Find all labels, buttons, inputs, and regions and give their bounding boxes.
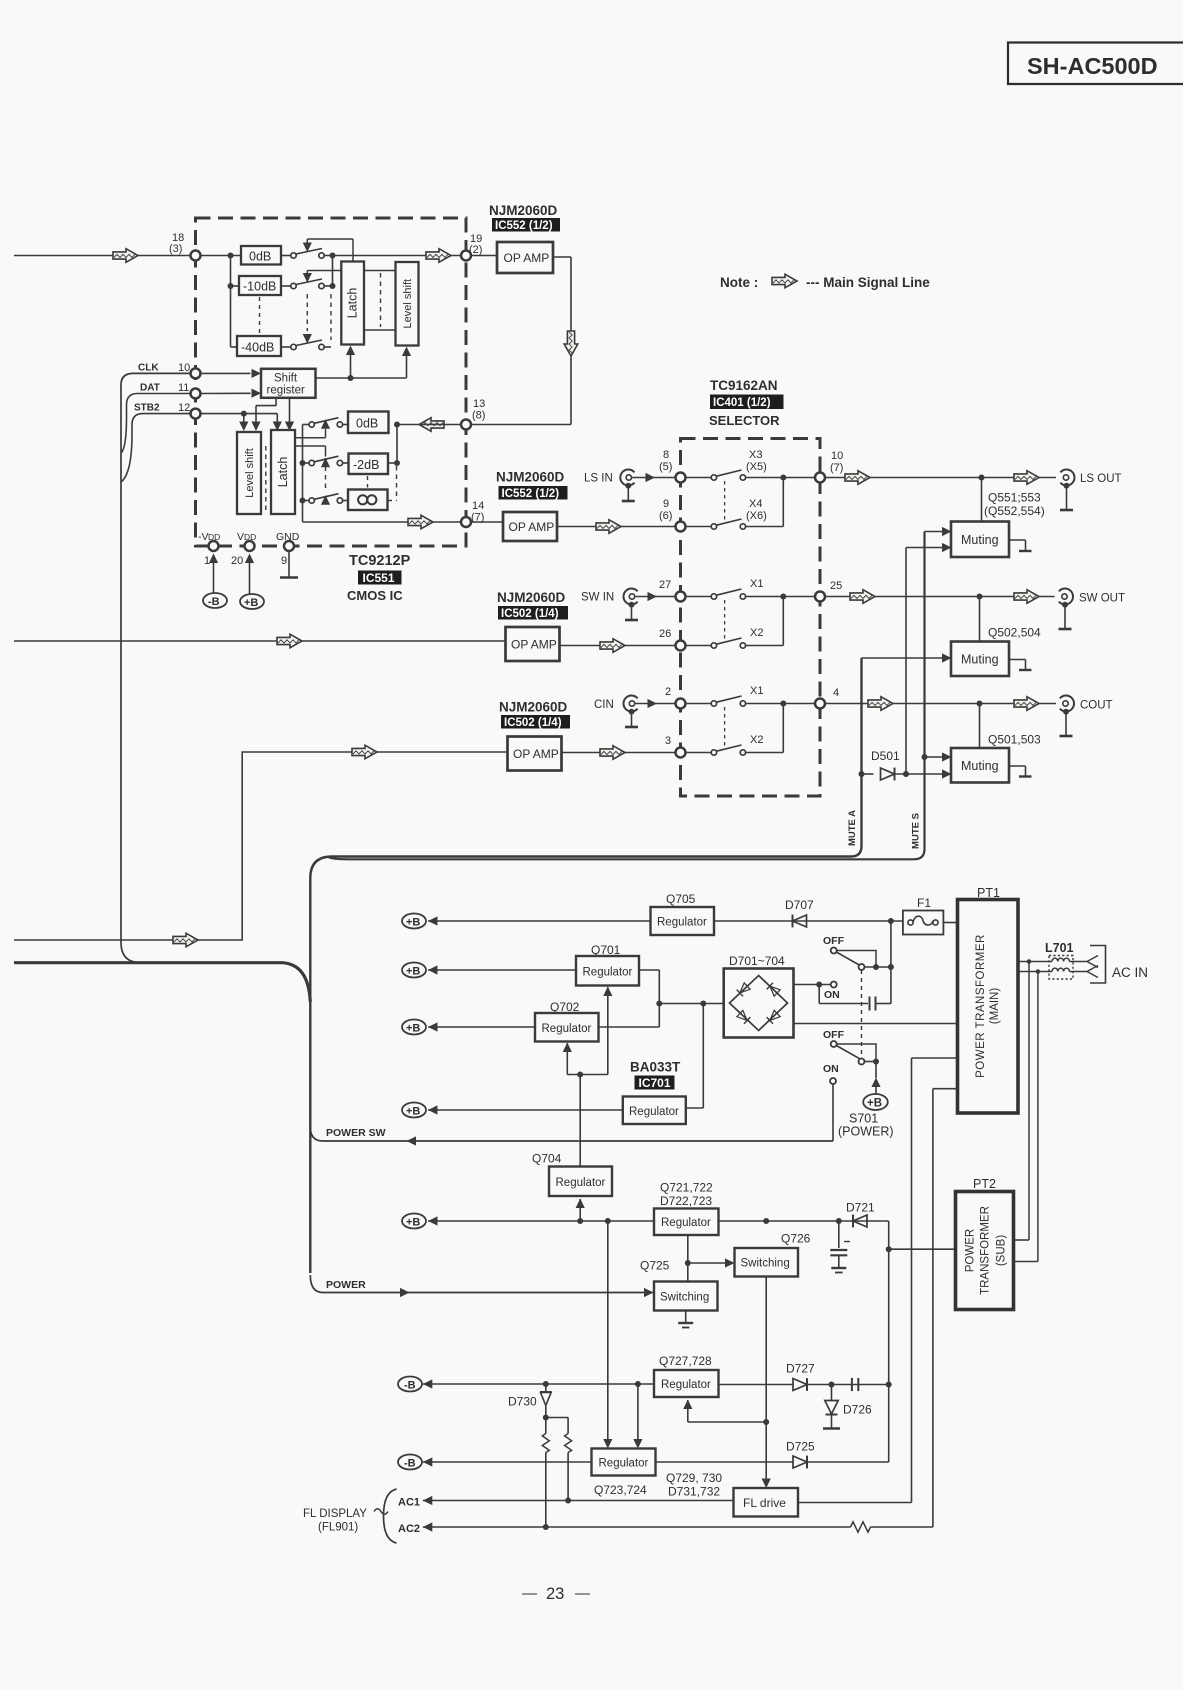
wire X4 up to X3 output	[746, 478, 784, 527]
svg-text:8: 8	[663, 449, 669, 461]
svg-text:NJM2060D: NJM2060D	[496, 470, 565, 485]
svg-text:Switching: Switching	[741, 1258, 790, 1270]
wire LS IN to pin 8	[632, 473, 676, 482]
muting LS inputs	[906, 527, 952, 552]
svg-text:Regulator: Regulator	[657, 917, 707, 929]
svg-text:D701~704: D701~704	[729, 954, 785, 968]
FL DISPLAY label and brace	[303, 1489, 397, 1543]
node pin 27	[659, 579, 686, 602]
svg-text:-40dB: -40dB	[241, 341, 274, 355]
label TC9162AN IC401 (1/2) SELECTOR	[709, 378, 784, 428]
muting block SW	[951, 597, 1032, 677]
svg-text:Regulator: Regulator	[661, 1379, 711, 1391]
svg-text:COUT: COUT	[1080, 700, 1113, 712]
latch block2	[271, 430, 295, 514]
svg-text:(2): (2)	[469, 244, 482, 256]
switch S701 pole b ON contact	[823, 1063, 839, 1141]
svg-text:FL drive: FL drive	[743, 1496, 786, 1510]
attenuator 0dB block2	[348, 412, 389, 434]
wire -B1 to Q723	[633, 1384, 642, 1449]
svg-text:4: 4	[833, 687, 839, 699]
wire Q723 output diode D725	[656, 1440, 889, 1469]
svg-text:Switching: Switching	[660, 1292, 709, 1304]
svg-text:Q502,504: Q502,504	[988, 626, 1041, 640]
svg-text:F1: F1	[917, 896, 931, 910]
switch row -10dB	[281, 271, 341, 289]
svg-text:OP AMP: OP AMP	[509, 520, 555, 534]
wire pin4 to COUT	[825, 697, 1056, 711]
svg-text:STB2: STB2	[134, 403, 160, 414]
switch X4 (X6)	[686, 481, 767, 529]
svg-text:DD: DD	[244, 532, 256, 542]
svg-text:(3): (3)	[169, 243, 182, 255]
svg-text:OP AMP: OP AMP	[504, 251, 550, 265]
latch U1a	[341, 262, 364, 345]
ground pin 9	[280, 552, 298, 578]
wire 13 to 0dB attenuator	[388, 422, 462, 501]
wire main input to pin 18	[14, 249, 191, 263]
connector SW IN	[581, 589, 638, 621]
connector LS OUT	[1060, 470, 1122, 511]
wire X2 up to X1 output	[746, 597, 784, 646]
S701 mechanical gang link	[861, 970, 863, 1058]
op-amp IC552b	[503, 512, 557, 541]
wire bridge output to PT1	[794, 1023, 958, 1025]
svg-text:OFF: OFF	[823, 935, 845, 947]
svg-text:-2dB: -2dB	[353, 458, 379, 472]
node pin 18 (3)	[169, 232, 201, 261]
regulator Q702	[535, 1000, 659, 1042]
wire Q721 bottom to switchers	[685, 1235, 735, 1282]
node pin 11 DAT	[140, 382, 201, 399]
svg-text:-B: -B	[404, 1458, 416, 1470]
svg-text:23: 23	[546, 1585, 564, 1603]
label NJM2060D IC502 (1/4) sw	[497, 590, 568, 620]
+B output 5	[402, 1214, 654, 1229]
svg-text:V: V	[237, 531, 244, 543]
svg-text:IC502 (1/4): IC502 (1/4)	[501, 608, 559, 620]
wire 18 to attenuators	[201, 253, 242, 348]
svg-text:D731,732: D731,732	[668, 1485, 720, 1499]
node pin 4	[815, 687, 839, 709]
svg-text:X2: X2	[750, 627, 763, 639]
svg-text:AC2: AC2	[398, 1523, 420, 1535]
svg-text:AC IN: AC IN	[1112, 965, 1148, 980]
wire op-amp4 output to pin 3	[562, 746, 676, 760]
wire +B5 to Q723	[603, 1221, 612, 1449]
node pin 14 (7)	[461, 500, 484, 527]
svg-text:L701: L701	[1045, 941, 1074, 955]
+B output 2	[402, 963, 576, 978]
note legend: main signal line	[720, 274, 930, 290]
node pin 10 (7)	[815, 450, 843, 483]
wire Q704 bottom to +B5 row	[576, 1199, 585, 1222]
svg-text:Latch: Latch	[276, 457, 290, 488]
wire X1 to pin 25	[746, 594, 815, 600]
svg-text:Muting: Muting	[961, 653, 999, 667]
+B output 4	[402, 1103, 623, 1118]
wire CLK routed to left bus	[121, 373, 191, 962]
svg-text:PT2: PT2	[973, 1177, 996, 1191]
label BA033T IC701	[630, 1060, 681, 1091]
svg-text:9: 9	[663, 498, 669, 510]
wire Q727 output diode D727 and cap	[719, 1362, 892, 1392]
svg-text:IC552 (1/2): IC552 (1/2)	[502, 488, 560, 500]
bridge rectifier D701~704	[724, 954, 794, 1038]
node pin 26	[659, 628, 686, 651]
svg-text:Q729, 730: Q729, 730	[666, 1471, 722, 1485]
svg-text:Regulator: Regulator	[556, 1177, 606, 1189]
svg-text:IC551: IC551	[363, 571, 395, 585]
svg-text:IC552 (1/2): IC552 (1/2)	[495, 220, 553, 232]
svg-text:SELECTOR: SELECTOR	[709, 413, 780, 428]
svg-text:ON: ON	[824, 989, 840, 1001]
svg-text:+B: +B	[244, 597, 258, 609]
control bus from left edge	[14, 963, 310, 1002]
PT2 right wires to AC taps	[1014, 1240, 1038, 1262]
svg-text:POWER TRANSFORMER: POWER TRANSFORMER	[975, 934, 987, 1078]
svg-text:X1: X1	[750, 578, 763, 590]
svg-text:26: 26	[659, 628, 671, 640]
svg-text:Q726: Q726	[781, 1232, 811, 1246]
attenuator infinity block2	[348, 476, 388, 510]
shift register output to latch1 / level shift1	[316, 346, 412, 382]
wire X2c up to X1c output	[746, 704, 784, 753]
shift register bottom outputs	[251, 398, 294, 431]
-B output 2	[398, 1455, 592, 1470]
svg-text:9: 9	[281, 555, 287, 567]
svg-text:D722,723: D722,723	[660, 1194, 712, 1208]
svg-text:AC1: AC1	[398, 1497, 420, 1509]
muting block LS	[951, 478, 1032, 558]
svg-text:IC401 (1/2): IC401 (1/2)	[713, 397, 771, 409]
node pin 9 (6)	[659, 498, 686, 532]
svg-text:10: 10	[178, 362, 190, 374]
svg-text:3: 3	[665, 735, 671, 747]
svg-text:-B: -B	[208, 596, 220, 608]
output bus of attenuator switches	[324, 249, 461, 347]
svg-text:11: 11	[178, 382, 189, 394]
+B output 1	[402, 914, 651, 929]
FL drive block	[734, 1488, 799, 1517]
svg-text:(X6): (X6)	[746, 510, 767, 522]
shift register	[261, 369, 316, 398]
wire Q705 to fuse with diode D707	[714, 898, 903, 927]
node pin 25	[815, 580, 842, 602]
wire pin10 to LS OUT	[825, 471, 1056, 485]
svg-text:+B: +B	[406, 1023, 420, 1035]
POWER SW line	[310, 1127, 833, 1146]
svg-text:SH-AC500D: SH-AC500D	[1027, 53, 1158, 79]
power transformer PT1	[958, 886, 1019, 1113]
svg-text:Q725: Q725	[640, 1259, 670, 1273]
label NJM2060D IC552 (1/2)	[489, 203, 560, 232]
svg-text:LS OUT: LS OUT	[1080, 473, 1122, 485]
switch X3 (X5)	[686, 449, 767, 480]
regulator Q723,724	[592, 1449, 656, 1498]
switch S701 pole a ON contact	[794, 982, 891, 1011]
IC551 dashed outline box	[196, 218, 467, 546]
svg-text:2: 2	[665, 686, 671, 698]
+B supply arrow	[240, 554, 264, 610]
svg-text:POWER SW: POWER SW	[326, 1127, 386, 1139]
svg-text:(5): (5)	[659, 461, 672, 473]
switch row block2 0dB	[296, 418, 348, 438]
attenuator -10dB	[239, 276, 281, 295]
svg-text:27: 27	[659, 579, 671, 591]
svg-text:Q705: Q705	[666, 892, 696, 906]
svg-text:CLK: CLK	[138, 363, 159, 374]
wire F1 node down to switch S701a	[888, 921, 894, 1004]
switching Q726	[735, 1232, 811, 1277]
svg-text:NJM2060D: NJM2060D	[489, 203, 558, 218]
svg-text:NJM2060D: NJM2060D	[497, 590, 566, 605]
node pin 2	[665, 686, 686, 709]
regulator Q721,722 D722,723	[654, 1181, 719, 1236]
attenuator -40dB	[237, 336, 281, 356]
op-amp IC502a	[506, 627, 560, 661]
svg-text:IC502 (1/4): IC502 (1/4)	[504, 717, 562, 729]
svg-text:(POWER): (POWER)	[838, 1125, 894, 1139]
switch X2 c	[686, 707, 764, 755]
muting C input from mute S	[922, 752, 952, 761]
svg-text:OP AMP: OP AMP	[513, 747, 559, 761]
connector COUT	[1060, 696, 1113, 737]
AC2 line with resistor	[398, 1522, 933, 1535]
svg-text:POWER: POWER	[965, 1229, 977, 1272]
svg-text:Regulator: Regulator	[661, 1217, 711, 1229]
svg-text:SW OUT: SW OUT	[1079, 593, 1125, 605]
AC1 line	[398, 1496, 734, 1509]
wire Q726 bottom to FL drive	[762, 1277, 771, 1489]
wire D721 node to PT2	[886, 1246, 956, 1252]
svg-text:TRANSFORMER: TRANSFORMER	[980, 1206, 992, 1295]
svg-text:Regulator: Regulator	[599, 1458, 649, 1470]
svg-text:OP AMP: OP AMP	[511, 638, 557, 652]
svg-text:(7): (7)	[830, 462, 843, 474]
label Q502,504	[988, 626, 1041, 640]
svg-text:(Q552,554): (Q552,554)	[984, 504, 1045, 518]
svg-text:X4: X4	[749, 498, 762, 510]
op-amp IC552a	[497, 242, 553, 273]
svg-text:X1: X1	[750, 685, 763, 697]
switch row 0dB	[281, 239, 353, 262]
svg-text:SW IN: SW IN	[581, 592, 614, 604]
regulator IC701	[623, 1004, 704, 1125]
wire left input loop to op-amp4	[14, 745, 508, 947]
node pin 20 VDD	[231, 531, 256, 567]
svg-text:14: 14	[472, 500, 484, 512]
diode D730	[508, 1384, 552, 1434]
wire pin25 to SW OUT	[825, 590, 1055, 604]
svg-text:25: 25	[830, 580, 842, 592]
labels Q729,730 D731,732	[666, 1471, 722, 1499]
svg-text:OFF: OFF	[823, 1029, 845, 1041]
svg-text:S701: S701	[849, 1112, 878, 1126]
label TC9212P IC551 CMOS IC	[347, 553, 411, 603]
+B output 3	[402, 1020, 535, 1035]
svg-text:TC9212P: TC9212P	[349, 553, 411, 569]
wire STB2 into block2 latches	[201, 411, 282, 431]
svg-text:D501: D501	[871, 749, 900, 763]
-B supply arrow	[203, 554, 227, 609]
node pin 3	[665, 735, 686, 758]
node pin 19 (2)	[461, 233, 482, 261]
svg-text:-10dB: -10dB	[243, 280, 276, 294]
svg-text:Latch: Latch	[346, 288, 360, 319]
mute line to muting LS lower input	[905, 548, 907, 775]
level shift block2	[237, 432, 261, 514]
connector AC IN	[1087, 946, 1148, 984]
wire op-amp2 output to selector pin 9	[557, 520, 675, 534]
wire SW IN to pin 27	[635, 592, 676, 601]
svg-text:FL DISPLAY: FL DISPLAY	[303, 1508, 367, 1520]
svg-text:Q721,722: Q721,722	[660, 1181, 713, 1195]
diode D501 and mute C lower input	[859, 749, 952, 780]
gang dashed link between arms	[306, 294, 308, 331]
wire Q721 output with diode D721	[719, 1201, 889, 1463]
svg-text:Muting: Muting	[961, 533, 999, 547]
svg-text:+B: +B	[406, 1106, 420, 1118]
mute A line	[310, 658, 861, 1273]
muting SW input from mute A	[862, 653, 952, 662]
switch S701 pole b OFF	[823, 1029, 879, 1065]
fuse F1	[903, 896, 958, 935]
svg-text:Q727,728: Q727,728	[659, 1354, 712, 1368]
wire left input to op-amp3	[14, 634, 506, 648]
svg-text:POWER: POWER	[326, 1279, 366, 1291]
regulator Q701	[576, 943, 639, 986]
svg-text:(8): (8)	[472, 410, 485, 422]
page number 23	[522, 1585, 590, 1603]
op-amp IC502b	[508, 737, 562, 771]
dashed link between level shift2 and latch2	[265, 446, 267, 510]
muting block C	[951, 704, 1032, 783]
svg-text:13: 13	[473, 398, 485, 410]
wire op-amp1 output loop to pin 13	[419, 257, 578, 431]
wire DAT to shift register	[201, 389, 262, 398]
svg-text:-V: -V	[198, 531, 209, 543]
svg-text:+B: +B	[406, 1217, 420, 1229]
latch to level shift links	[364, 271, 396, 331]
svg-text:(FL901): (FL901)	[318, 1522, 358, 1534]
svg-text:(SUB): (SUB)	[996, 1235, 1008, 1266]
svg-text:LS IN: LS IN	[584, 473, 613, 485]
svg-text:Q551;553: Q551;553	[988, 491, 1041, 505]
svg-text:0dB: 0dB	[249, 250, 271, 264]
wire DAT routed to left bus	[121, 394, 190, 454]
capacitor at Q721 output	[830, 1221, 850, 1273]
svg-text:-B: -B	[404, 1380, 416, 1392]
diode D726 to ground	[823, 1385, 872, 1429]
wire PT1 to FL drive column	[912, 1058, 958, 1503]
svg-text:10: 10	[831, 450, 843, 462]
svg-text:MUTE S: MUTE S	[911, 813, 922, 849]
svg-text:Level shift: Level shift	[244, 448, 256, 498]
resistor pair to FL lines	[542, 1418, 571, 1531]
switch row block2 infinity	[309, 458, 348, 505]
wire Q727 bottom feed	[683, 1400, 766, 1423]
svg-text:+B: +B	[867, 1098, 882, 1110]
connector LS IN	[584, 470, 635, 502]
mute S to muting C junction	[924, 532, 926, 758]
dashed continuation between -10dB and -40dB	[259, 297, 261, 334]
svg-text:20: 20	[231, 555, 243, 567]
node pin 13 (8)	[461, 398, 485, 430]
label Q551,553 (Q552,554)	[984, 491, 1045, 519]
attenuator 0dB	[241, 246, 281, 265]
wire STB2 routed to left bus	[121, 414, 190, 482]
regulator Q705	[651, 892, 715, 935]
wire CLK to shift register	[201, 369, 262, 378]
connector CIN	[594, 696, 638, 728]
node pin 8 (5)	[659, 449, 686, 483]
wire node19 to op-amp	[471, 255, 497, 257]
svg-text:BA033T: BA033T	[630, 1060, 681, 1075]
level shift U1b	[396, 262, 419, 346]
model name box SH-AC500D	[1008, 43, 1183, 85]
svg-text:Note :: Note :	[720, 275, 758, 290]
svg-text:X2: X2	[750, 734, 763, 746]
node pin 1 -VDD	[198, 531, 220, 567]
label NJM2060D IC502 (1/4) c	[499, 700, 570, 730]
svg-text:+B: +B	[406, 917, 420, 929]
svg-text:X3: X3	[749, 449, 762, 461]
regulator Q704	[532, 1152, 612, 1197]
node pin 12 STB2	[134, 402, 201, 419]
svg-text:D707: D707	[785, 898, 814, 912]
wire X3 to pin 10	[746, 475, 815, 481]
node pin 9 GND	[276, 531, 300, 567]
svg-text:CIN: CIN	[594, 699, 614, 711]
svg-text:DAT: DAT	[140, 383, 160, 394]
ground Q725	[678, 1311, 693, 1328]
wire CIN to pin 2	[635, 699, 676, 708]
svg-text:DD: DD	[208, 532, 220, 542]
svg-text:D721: D721	[846, 1201, 875, 1215]
svg-text:0dB: 0dB	[356, 417, 378, 431]
wire Q701 output to bridge node	[639, 970, 724, 1027]
svg-text:—: —	[575, 1585, 590, 1602]
regulator feed chain Q701 Q702 from Q704	[563, 987, 613, 1167]
wires AC to PT2 taps	[1027, 959, 1041, 1261]
switch X2 sw	[686, 600, 764, 648]
svg-text:NJM2060D: NJM2060D	[499, 700, 568, 715]
attenuator -2dB block2	[349, 454, 389, 475]
switch row -40dB	[281, 334, 324, 350]
svg-text:(X5): (X5)	[746, 461, 767, 473]
label NJM2060D IC552 (1/2) second	[496, 470, 568, 501]
connector SW OUT	[1059, 589, 1126, 630]
switch X1 sw	[686, 578, 764, 599]
svg-text:MUTE A: MUTE A	[847, 810, 858, 846]
svg-text:ON: ON	[823, 1063, 839, 1075]
svg-text:--- Main Signal Line: --- Main Signal Line	[806, 275, 930, 290]
switching Q725	[640, 1259, 718, 1311]
svg-text:GND: GND	[276, 531, 300, 543]
block2 switch common bus to pin 14	[300, 425, 462, 529]
svg-text:Regulator: Regulator	[583, 967, 633, 979]
svg-text:Q704: Q704	[532, 1152, 562, 1166]
wire FL drive to PT1 column	[798, 1502, 912, 1504]
svg-text:12: 12	[178, 402, 190, 414]
svg-text:Level shift: Level shift	[402, 279, 414, 329]
mute S line	[329, 532, 925, 860]
svg-text:Q723,724: Q723,724	[594, 1483, 647, 1497]
svg-text:D730: D730	[508, 1395, 537, 1409]
switch S701 pole a OFF	[823, 935, 891, 970]
wire PT1 to AC2 column	[933, 1089, 958, 1527]
